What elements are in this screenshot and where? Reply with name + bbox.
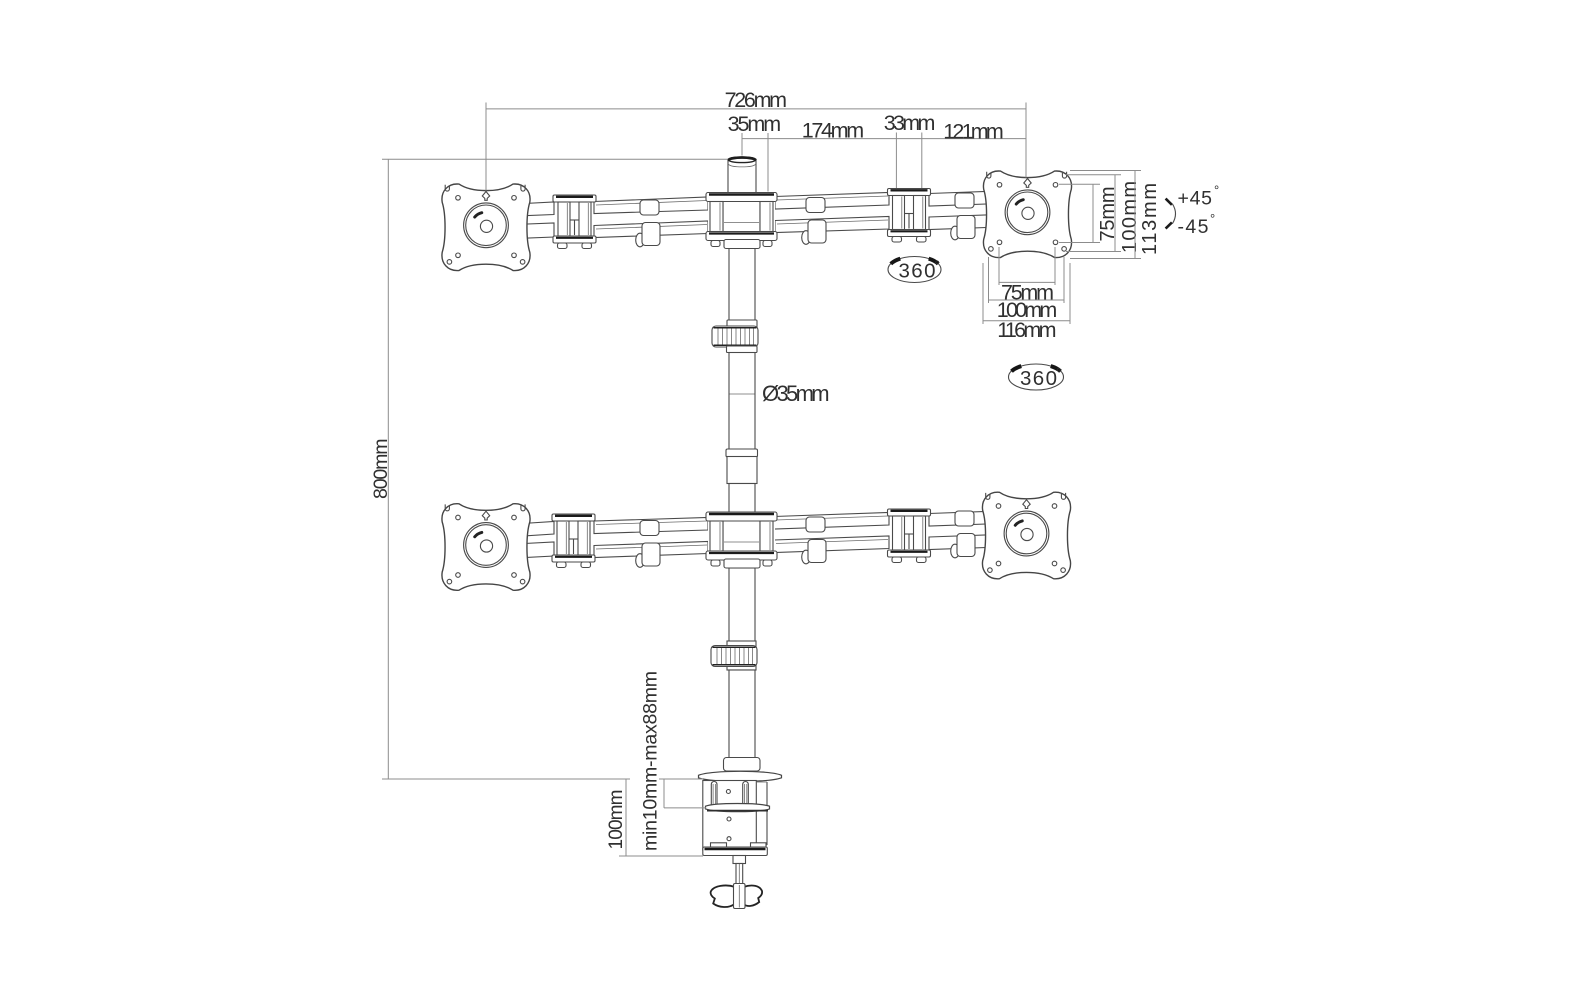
svg-text:33mm: 33mm <box>884 111 936 135</box>
360 ellipse bottom <box>1009 364 1064 390</box>
dim below vesa 100mm <box>988 257 990 303</box>
dim 100mm bottom vertical <box>625 779 627 856</box>
pole collar <box>726 449 758 457</box>
svg-text:360: 360 <box>1020 367 1057 390</box>
wire/tube left stub lower <box>515 223 554 239</box>
tube right elbow to vesa upper <box>929 511 1000 526</box>
tube right elbow to vesa lower <box>929 535 1000 550</box>
dim right vesa 75mm vertical bracket <box>1059 183 1100 185</box>
clip pair lower arm 2 <box>802 517 826 564</box>
pole clamp top <box>706 193 777 249</box>
clip pair lower arm 3 <box>951 511 975 558</box>
svg-text:800mm: 800mm <box>370 439 392 500</box>
pole mid segment <box>729 353 755 450</box>
screw rod <box>736 864 743 889</box>
dim second row line <box>742 138 1026 140</box>
tube clamp to right elbow lower <box>774 536 889 553</box>
clip pair top arm 1 <box>636 200 660 247</box>
svg-text:min10mm-max88mm: min10mm-max88mm <box>640 671 662 851</box>
svg-text:°: ° <box>1210 211 1215 226</box>
pole segment <box>729 484 755 513</box>
tube left stub lower <box>515 542 554 558</box>
sleeve below knurl ring 1 <box>727 346 758 353</box>
pole top cap <box>728 157 756 194</box>
tube elbow to clamp lower <box>594 221 708 238</box>
tube elbow to clamp upper <box>594 197 708 214</box>
clip pair top arm 3 <box>951 193 975 240</box>
dim 800mm vertical <box>387 159 389 779</box>
clamp top plate <box>699 771 782 781</box>
svg-text:Ø35mm: Ø35mm <box>762 381 830 406</box>
elbow top-left <box>553 195 596 249</box>
tube clamp to right elbow lower <box>775 217 889 233</box>
clip pair top arm 2 <box>802 198 826 245</box>
T-handle <box>711 885 735 907</box>
svg-text:360: 360 <box>899 260 936 283</box>
dim below vesa 116mm <box>982 263 984 324</box>
shelf plate <box>706 804 770 812</box>
clamp body <box>703 781 757 851</box>
svg-text:116mm: 116mm <box>997 318 1056 342</box>
svg-text:100mm: 100mm <box>1119 181 1141 253</box>
svg-text:35mm: 35mm <box>728 112 782 136</box>
dim min10mm-max88mm bracket <box>663 779 665 808</box>
slot left <box>711 782 717 808</box>
svg-text:174mm: 174mm <box>802 119 865 143</box>
svg-text:+45: +45 <box>1178 188 1213 210</box>
svg-text:75mm: 75mm <box>1097 187 1119 242</box>
svg-text:°: ° <box>935 258 940 273</box>
tilt +45 arrow <box>1166 183 1220 239</box>
base neck <box>724 758 761 772</box>
tube elbow to clamp upper <box>594 518 708 534</box>
knurled ring 2 <box>711 646 757 667</box>
vesa plate bottom-right <box>982 492 1070 579</box>
knurled ring 1 <box>712 326 758 347</box>
slot right <box>743 782 749 808</box>
tube right elbow to vesa lower <box>929 215 1000 230</box>
screw boss <box>733 856 746 864</box>
svg-text:121mm: 121mm <box>943 120 1004 144</box>
body hole 1 <box>726 790 730 794</box>
svg-text:°: ° <box>1056 366 1061 381</box>
pole joint line <box>730 393 755 395</box>
body hole 3 <box>727 837 731 841</box>
pole below lower clamp <box>729 568 755 646</box>
wire/tube left stub upper <box>515 202 554 216</box>
tube elbow to clamp lower <box>594 542 708 558</box>
svg-text:-45: -45 <box>1178 216 1209 238</box>
dim below vesa 75mm <box>998 247 1000 285</box>
elbow bottom-left <box>552 514 595 568</box>
svg-text:100mm: 100mm <box>606 790 627 850</box>
pole segment below top clamp <box>729 248 755 327</box>
body hole 2 <box>727 817 731 821</box>
360 ellipse top <box>888 257 941 283</box>
bottom jaw <box>711 843 727 849</box>
dim 726mm line <box>486 108 1026 110</box>
sleeve joint above knurl ring 1 <box>727 320 757 328</box>
vesa plate top-right <box>983 171 1071 258</box>
tube clamp to right elbow upper <box>775 193 889 210</box>
tube right elbow to vesa upper <box>929 191 1000 206</box>
dim right vesa 100mm vertical bracket <box>1066 174 1121 176</box>
vesa plate top-left <box>442 184 530 271</box>
knurl ring 2 sleeve <box>727 641 756 670</box>
svg-text:°: ° <box>1214 183 1219 198</box>
elbow bottom-right <box>888 509 931 563</box>
pole bottom segment <box>729 670 755 758</box>
tube left stub upper <box>515 522 554 537</box>
pole sleeve <box>727 457 757 484</box>
tube clamp to right elbow upper <box>774 513 889 530</box>
dim right vesa 113mm vertical bracket <box>1070 170 1141 172</box>
svg-text:113mm: 113mm <box>1139 183 1161 255</box>
pole clamp bottom <box>706 512 777 568</box>
elbow top-right <box>888 189 931 243</box>
vesa plate bottom-left <box>442 504 530 591</box>
clip pair lower arm 1 <box>636 521 660 568</box>
svg-text:726mm: 726mm <box>725 88 788 112</box>
